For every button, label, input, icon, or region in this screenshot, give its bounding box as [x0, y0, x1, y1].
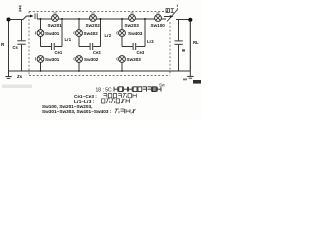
- switch Sw303: [117, 56, 126, 63]
- wire top bus segment 3: [96, 18, 128, 20]
- node branch1 top: [40, 18, 42, 20]
- capacitor Ce2: [90, 43, 93, 50]
- switch Sw403: [117, 30, 126, 37]
- legend line 2: Lr1~Lr3 : インダクタ: [74, 99, 129, 104]
- input series tick marks: [35, 13, 37, 19]
- capacitor Cs input shunt: [17, 19, 25, 71]
- node branch1 riser top: [61, 18, 63, 20]
- wire branch2 drop upper: [78, 19, 80, 30]
- svg-text:Sw403: Sw403: [128, 31, 143, 36]
- label E source: [19, 6, 22, 11]
- inductor Lr2 riser: [100, 19, 102, 47]
- wire branch1 drop middle: [40, 36, 42, 46]
- wire top bus segment 4: [135, 18, 154, 20]
- node branch3 riser top: [144, 18, 146, 20]
- output arrow: [164, 15, 173, 18]
- inductor Lr1 riser: [61, 19, 63, 47]
- svg-text:Cs: Cs: [13, 45, 19, 50]
- capacitor output shunt: [175, 20, 183, 72]
- legend line 1: Ce1~Ce3 : コンデンサ: [74, 94, 136, 99]
- svg-text:Sw100: Sw100: [151, 23, 166, 28]
- capacitor Ce1: [52, 43, 55, 50]
- scan speck near output cap: [182, 49, 185, 51]
- wire branch3 cap lead left: [122, 46, 133, 48]
- switch Sw100: [155, 13, 162, 21]
- scan speck: [183, 79, 187, 81]
- wire top bus segment 5: [161, 18, 166, 20]
- wire branch3 drop lower: [121, 62, 123, 71]
- svg-text:Sw: Sw: [159, 83, 166, 88]
- dashed enclosure box: [29, 12, 170, 76]
- switch Sw301: [35, 56, 44, 63]
- ground right: [187, 71, 193, 78]
- tick glyph near output corner: [176, 5, 178, 11]
- bottom bus wire: [9, 70, 191, 72]
- output switch arm diagonal: [167, 10, 178, 22]
- caption: 18 : 5C形ローパス-F回路: [96, 87, 162, 94]
- svg-text:Sw203: Sw203: [125, 23, 140, 28]
- input terminal dot: [7, 18, 11, 22]
- switch Sw401: [35, 30, 44, 37]
- svg-text:Sw401: Sw401: [45, 31, 60, 36]
- svg-text:Zs: Zs: [17, 74, 23, 79]
- switch Sw201: [52, 13, 59, 21]
- faint smear left of caption: [2, 85, 32, 89]
- inductor Lr3 riser: [144, 19, 146, 47]
- wire input diagonal rise: [23, 16, 27, 20]
- svg-text:18 : 5C: 18 : 5C: [96, 87, 113, 93]
- label above output arrow: [166, 9, 174, 13]
- wire branch1 cap lead left: [41, 46, 52, 48]
- wire source left vertical: [8, 22, 10, 72]
- wire branch2 drop middle: [78, 36, 80, 46]
- svg-text:Sw202: Sw202: [86, 23, 101, 28]
- svg-text:Sw402: Sw402: [84, 31, 99, 36]
- wire branch1 drop upper: [40, 19, 42, 30]
- input arrow: [27, 15, 34, 18]
- svg-text:Lr2: Lr2: [105, 33, 112, 38]
- legend line 4: Sw301~Sw303, Sw401~Sw403 : スイッチ: [42, 109, 136, 114]
- svg-text:Sw303: Sw303: [127, 57, 142, 62]
- svg-text:Sw201: Sw201: [48, 23, 63, 28]
- switch Sw302: [74, 56, 83, 63]
- svg-text:Sw301: Sw301: [45, 57, 60, 62]
- svg-text:Lr1: Lr1: [65, 37, 72, 42]
- junction branch2 bottom: [78, 70, 80, 72]
- svg-text:R: R: [1, 42, 5, 47]
- wire top bus segment 1: [37, 18, 51, 20]
- switch Sw203: [129, 13, 136, 21]
- scan smudge right margin: [193, 80, 201, 84]
- ground left: [5, 71, 11, 78]
- wire branch1 drop lower: [40, 62, 42, 71]
- output terminal dot: [188, 18, 192, 22]
- wire branch3 cap lead right: [136, 46, 145, 48]
- wire branch2 cap lead left: [79, 46, 90, 48]
- wire branch2 cap lead right: [93, 46, 100, 48]
- label E (source): [0, 0, 1, 1]
- wire branch3 drop upper: [121, 19, 123, 30]
- svg-text:Ce2: Ce2: [93, 50, 101, 55]
- junction branch1 bottom: [40, 70, 42, 72]
- wire input horizontal: [9, 19, 24, 21]
- capacitor Ce3: [133, 43, 136, 50]
- node branch2 riser top: [100, 18, 102, 20]
- svg-text:Sw301~Sw303, Sw401~Sw403 :: Sw301~Sw303, Sw401~Sw403 :: [42, 109, 112, 114]
- wire branch3 drop middle: [121, 36, 123, 46]
- svg-text:Ce3: Ce3: [137, 50, 145, 55]
- wire branch1 cap lead right: [55, 46, 62, 48]
- junction branch3 bottom: [121, 70, 123, 72]
- svg-text:RL: RL: [193, 40, 199, 45]
- wire top bus segment 2: [58, 18, 89, 20]
- switch Sw202: [90, 13, 97, 21]
- svg-text:Lr3: Lr3: [147, 39, 154, 44]
- node branch3 top: [121, 18, 123, 20]
- wire branch2 drop lower: [78, 62, 80, 71]
- resistor RL load line: [189, 22, 191, 71]
- svg-text:Ce1: Ce1: [55, 50, 63, 55]
- svg-text:Sw302: Sw302: [84, 57, 99, 62]
- switch Sw402: [74, 30, 83, 37]
- node branch2 top: [78, 18, 80, 20]
- wire to output terminal: [176, 19, 189, 21]
- text labels: [1, 6, 199, 79]
